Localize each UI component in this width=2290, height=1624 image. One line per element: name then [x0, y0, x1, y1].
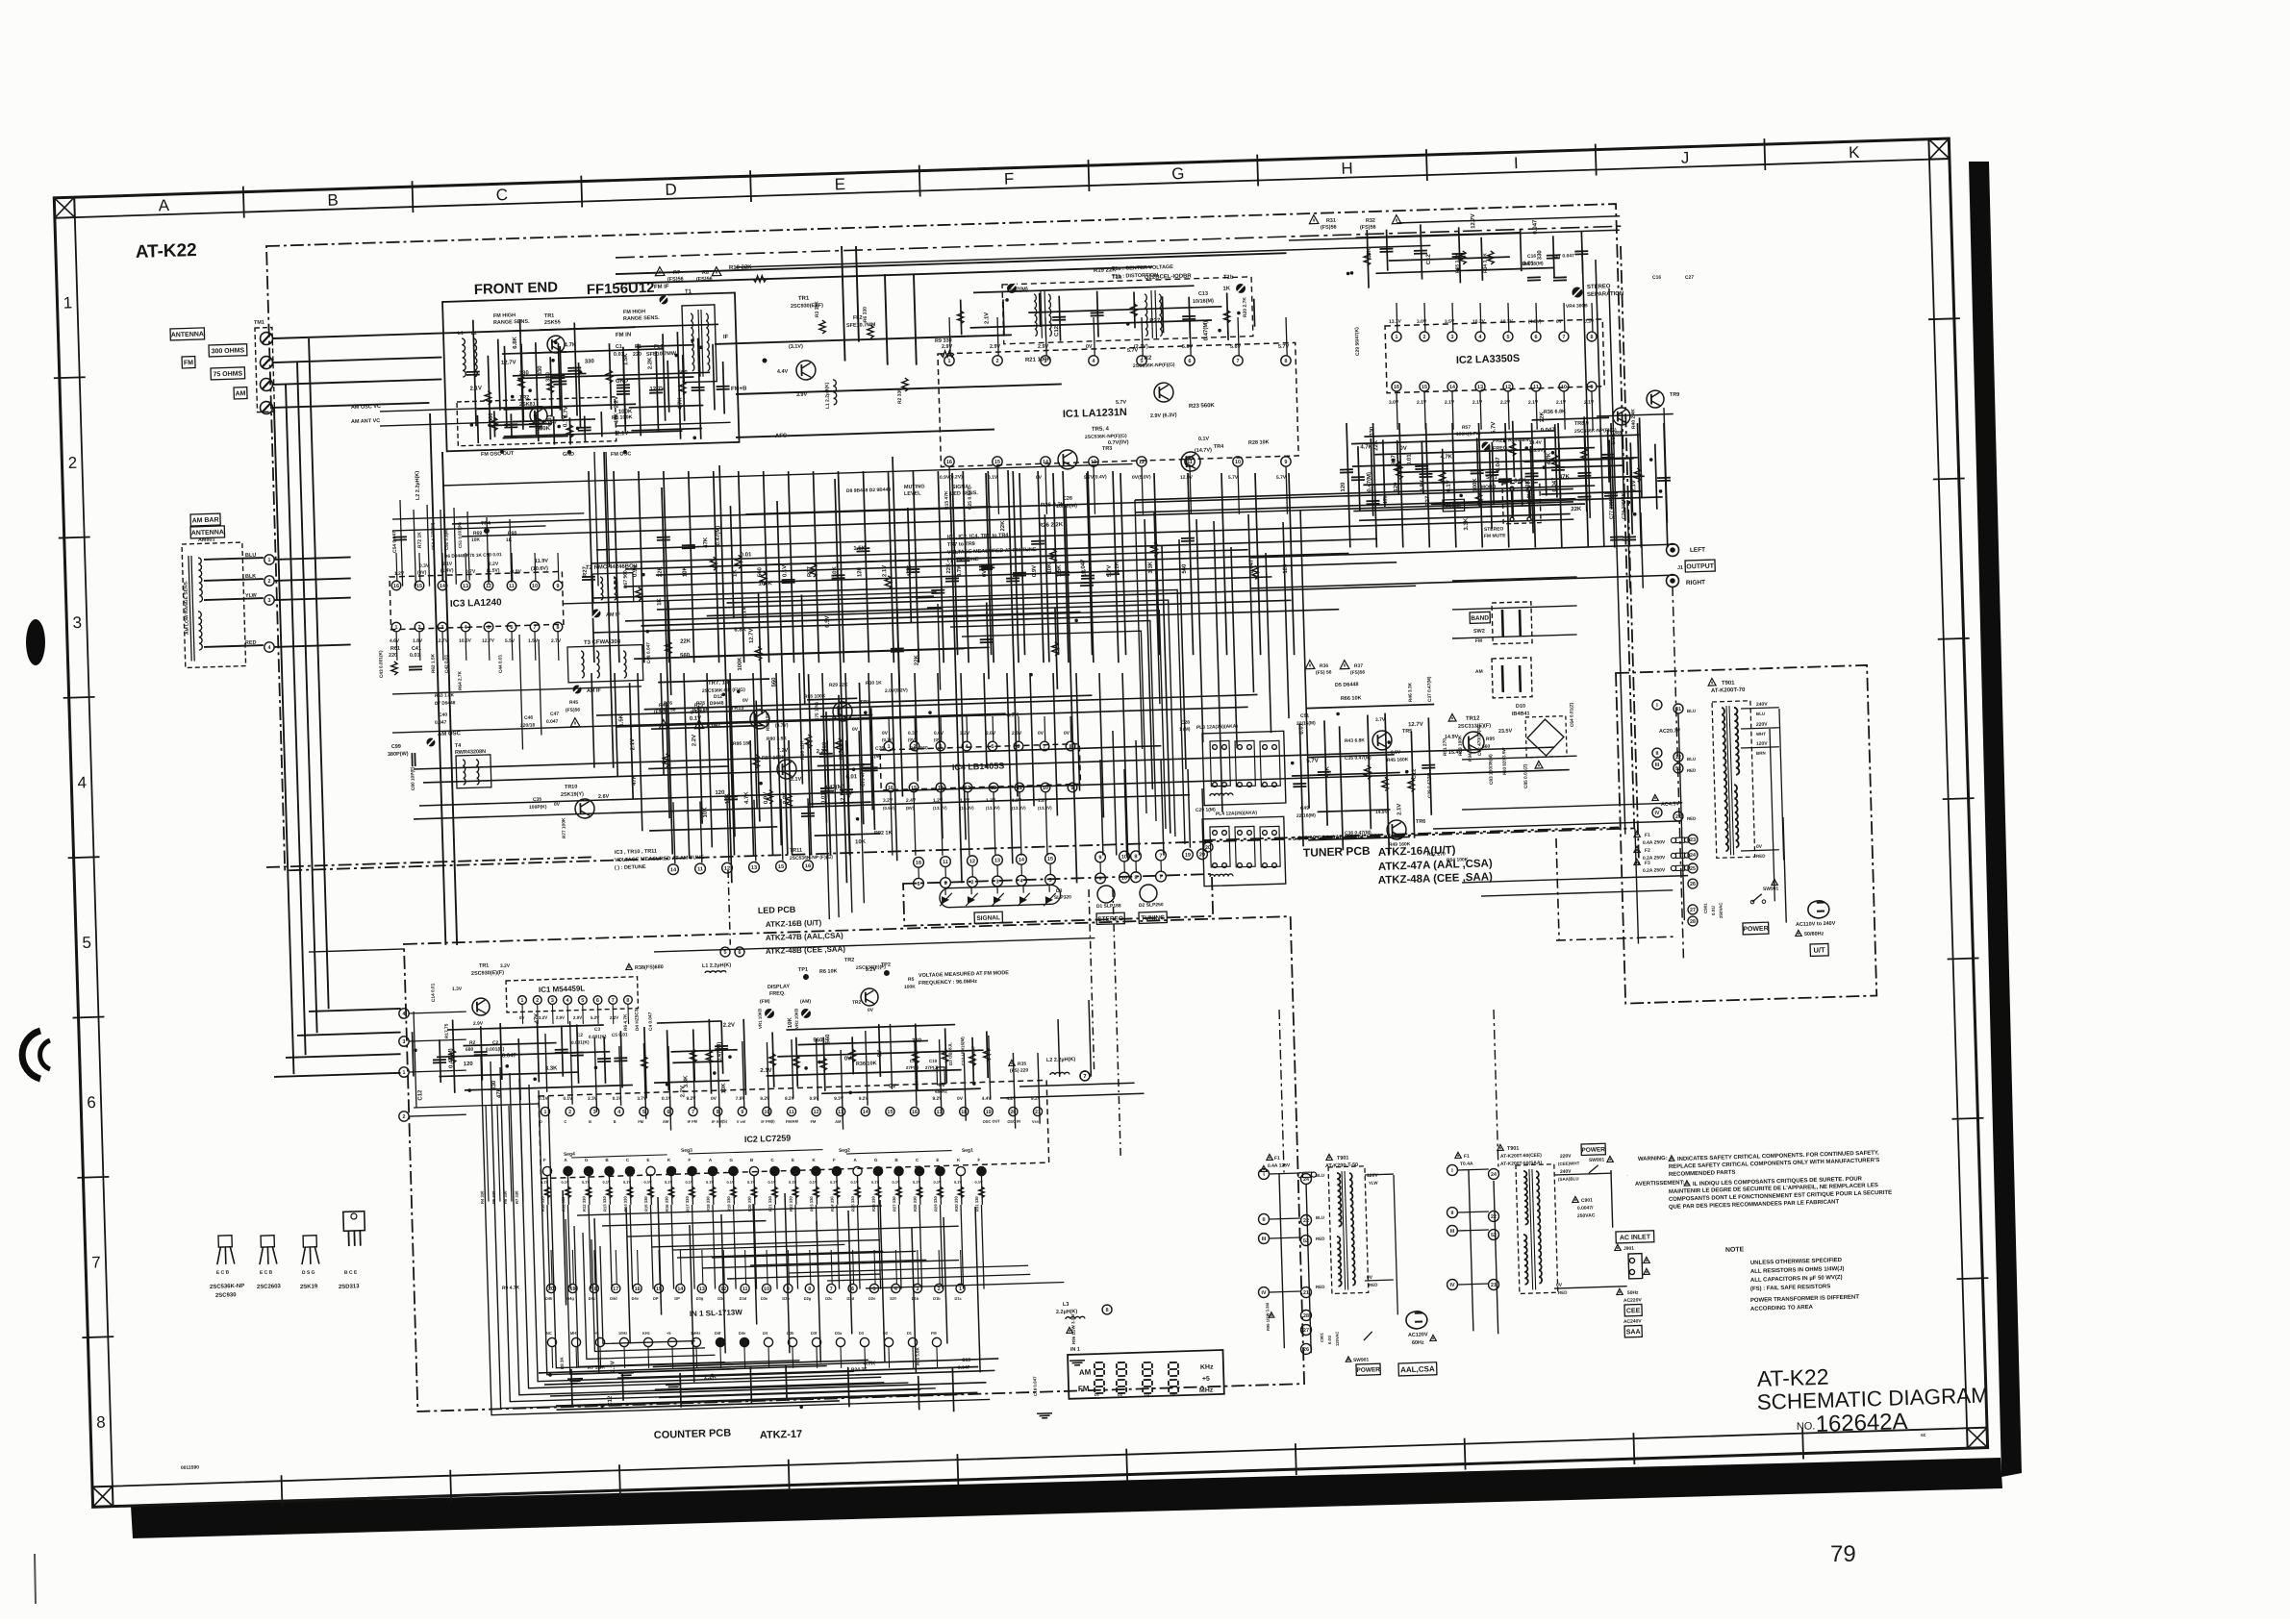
- svg-text:DP: DP: [674, 1296, 680, 1301]
- svg-text:(13.3V): (13.3V): [1038, 806, 1052, 811]
- svg-text:0V: 0V: [889, 1084, 895, 1089]
- svg-text:R19 330: R19 330: [726, 1196, 731, 1212]
- svg-text:R6 4.7K: R6 4.7K: [623, 1013, 630, 1031]
- svg-text:16: 16: [634, 1287, 640, 1292]
- svg-text:13: 13: [751, 865, 757, 871]
- svg-text:F1: F1: [1274, 1156, 1280, 1162]
- svg-text:D2b: D2b: [782, 1296, 790, 1301]
- svg-text:0.01: 0.01: [741, 552, 752, 558]
- svg-text:6: 6: [667, 1110, 669, 1115]
- svg-text:OSC OUT: OSC OUT: [983, 1118, 1001, 1124]
- svg-text:5.7V: 5.7V: [1228, 475, 1239, 481]
- svg-text:10.3V: 10.3V: [1500, 319, 1514, 325]
- svg-text:TP2: TP2: [881, 962, 891, 968]
- svg-text:5.7V: 5.7V: [1306, 759, 1318, 764]
- svg-text:0.1V: 0.1V: [726, 1180, 735, 1185]
- svg-text:R3 15K: R3 15K: [814, 301, 820, 317]
- svg-text:IB4B41: IB4B41: [1512, 711, 1530, 717]
- svg-text:2: 2: [1422, 335, 1425, 340]
- svg-text:R12 330: R12 330: [582, 1195, 587, 1212]
- svg-text:D4b: D4b: [545, 1296, 553, 1301]
- svg-text:R62 1.5K: R62 1.5K: [430, 653, 437, 673]
- svg-text:6.8K: 6.8K: [513, 336, 518, 348]
- svg-text:5.7V: 5.7V: [1491, 422, 1497, 434]
- svg-text:3.2V: 3.2V: [960, 731, 970, 737]
- svg-text:C4 0.047: C4 0.047: [647, 1012, 654, 1031]
- svg-text:R96 1/2W 3.3M: R96 1/2W 3.3M: [1070, 1314, 1076, 1344]
- svg-text:R5: R5: [908, 977, 915, 983]
- svg-text:MHz: MHz: [570, 1331, 578, 1336]
- svg-text:RED: RED: [1687, 816, 1697, 821]
- svg-text:4.7K: 4.7K: [1360, 444, 1372, 450]
- svg-text:IC1 M54459L: IC1 M54459L: [539, 984, 586, 994]
- svg-text:C26: C26: [1063, 496, 1072, 502]
- svg-text:19: 19: [569, 1287, 575, 1292]
- svg-text:ATKZ-16A(U/T): ATKZ-16A(U/T): [1378, 844, 1456, 859]
- svg-text:TR9: TR9: [1670, 392, 1680, 398]
- svg-text:11: 11: [789, 1110, 794, 1115]
- svg-text:2SC536K-NP: 2SC536K-NP: [210, 1284, 244, 1290]
- svg-text:IC1 LA1231N: IC1 LA1231N: [1063, 407, 1127, 420]
- svg-text:0V: 0V: [1556, 319, 1563, 325]
- svg-text:0V: 0V: [877, 1050, 883, 1058]
- svg-text:WARNING:: WARNING:: [1638, 1156, 1668, 1162]
- svg-text:F2: F2: [1645, 848, 1650, 854]
- svg-text:0.047: 0.047: [543, 419, 559, 425]
- svg-text:0V: 0V: [868, 1008, 874, 1013]
- svg-text:8: 8: [96, 1413, 106, 1432]
- svg-text:R36 6.8K: R36 6.8K: [1544, 409, 1566, 415]
- svg-text:560: 560: [771, 677, 777, 687]
- svg-text:RED: RED: [1687, 768, 1697, 773]
- svg-text:10K: 10K: [471, 537, 481, 543]
- svg-text:TP1: TP1: [798, 967, 808, 973]
- svg-text:TR6: TR6: [1416, 819, 1426, 825]
- svg-text:0.4A 250V: 0.4A 250V: [1643, 839, 1666, 846]
- svg-text:0V: 0V: [711, 1096, 717, 1102]
- svg-text:R91 560: R91 560: [910, 745, 928, 752]
- svg-text:0.1V: 0.1V: [789, 1180, 797, 1185]
- svg-text:R17 330: R17 330: [685, 1195, 690, 1212]
- svg-text:16: 16: [916, 861, 921, 866]
- svg-text:3.3K: 3.3K: [1464, 517, 1470, 530]
- svg-text:0.3V: 0.3V: [908, 731, 919, 737]
- svg-text:2: 2: [970, 880, 973, 886]
- svg-text:5: 5: [642, 1110, 645, 1115]
- svg-text:AM IF: AM IF: [587, 688, 602, 694]
- svg-text:C901: C901: [1581, 1198, 1593, 1204]
- svg-text:12.7V: 12.7V: [501, 360, 516, 365]
- svg-text:12.7V: 12.7V: [1471, 213, 1476, 229]
- svg-text:0.3V: 0.3V: [1584, 319, 1595, 325]
- svg-text:3: 3: [1450, 335, 1453, 340]
- svg-text:4.6V: 4.6V: [390, 638, 400, 644]
- svg-text:R45: R45: [569, 700, 579, 706]
- svg-text:10: 10: [1561, 385, 1567, 390]
- svg-text:C29 56/47(K): C29 56/47(K): [1354, 327, 1361, 356]
- svg-text:F: F: [833, 1158, 836, 1162]
- svg-text:TR3: TR3: [1102, 446, 1113, 452]
- svg-text:2SC2603: 2SC2603: [257, 1284, 282, 1290]
- svg-text:E: E: [792, 1158, 794, 1162]
- svg-text:3: 3: [72, 613, 82, 632]
- svg-text:0.01: 0.01: [1298, 722, 1304, 734]
- svg-text:C27: C27: [1685, 275, 1695, 281]
- svg-text:D1b: D1b: [933, 1296, 941, 1301]
- svg-text:3: 3: [440, 625, 443, 631]
- svg-text:2.1V: 2.1V: [984, 312, 990, 324]
- svg-text:(CEE)WHT: (CEE)WHT: [1558, 1161, 1580, 1166]
- svg-text:DISPLAY: DISPLAY: [768, 984, 791, 990]
- svg-text:2.0V(0.2V): 2.0V(0.2V): [885, 687, 908, 694]
- svg-text:300 OHMS: 300 OHMS: [212, 347, 245, 355]
- svg-text:19: 19: [1185, 853, 1191, 859]
- svg-text:C76: C76: [875, 746, 885, 752]
- svg-text:E C B: E C B: [216, 1270, 230, 1276]
- svg-text:POWER: POWER: [1581, 1146, 1605, 1154]
- svg-text:T901: T901: [1507, 1146, 1520, 1152]
- svg-text:1MHz: 1MHz: [691, 1331, 701, 1336]
- svg-text:1 (M): 1 (M): [1179, 727, 1191, 733]
- svg-text:FM OSC: FM OSC: [611, 451, 631, 458]
- svg-text:III: III: [1450, 1229, 1455, 1235]
- svg-text:2.9V: 2.9V: [473, 1021, 484, 1027]
- svg-text:8: 8: [1105, 1308, 1108, 1313]
- svg-text:10K: 10K: [1047, 562, 1053, 574]
- svg-text:D1c: D1c: [954, 1296, 962, 1301]
- svg-text:4.7K: 4.7K: [678, 397, 684, 410]
- svg-text:240V: 240V: [1756, 702, 1768, 708]
- svg-text:COUNTER PCB: COUNTER PCB: [654, 1427, 732, 1441]
- svg-text:RED: RED: [1756, 854, 1766, 859]
- svg-text:8: 8: [556, 625, 559, 631]
- svg-text:R86 18K: R86 18K: [733, 740, 752, 747]
- svg-text:0V: 0V: [742, 698, 749, 704]
- svg-text:R35: R35: [1018, 1062, 1027, 1067]
- svg-text:3.0V: 3.0V: [1389, 400, 1399, 406]
- svg-text:27: 27: [1690, 908, 1696, 913]
- svg-text:0.01: 0.01: [1522, 262, 1534, 267]
- svg-text:0.1V: 0.1V: [913, 1180, 921, 1185]
- svg-text:79: 79: [1830, 1541, 1856, 1567]
- svg-text:R6 10K: R6 10K: [819, 968, 838, 975]
- svg-text:VR4 300B: VR4 300B: [1566, 303, 1589, 310]
- svg-text:POWER: POWER: [1356, 1366, 1380, 1374]
- svg-text:F: F: [977, 1158, 980, 1162]
- svg-text:220V: 220V: [1560, 1154, 1572, 1160]
- svg-text:OUTPUT: OUTPUT: [1686, 563, 1715, 571]
- svg-text:BLU: BLU: [245, 553, 256, 559]
- svg-text:0V: 0V: [852, 727, 859, 733]
- svg-text:10.5V: 10.5V: [459, 638, 472, 644]
- svg-text:0.47(M): 0.47(M): [1008, 287, 1028, 293]
- svg-text:2.1V: 2.1V: [470, 386, 482, 391]
- svg-text:2.1V: 2.1V: [1397, 804, 1402, 815]
- svg-text:330: 330: [519, 370, 530, 376]
- svg-text:3: 3: [402, 1039, 405, 1045]
- svg-text:(15.3V): (15.3V): [960, 806, 974, 811]
- svg-text:AM: AM: [1475, 669, 1483, 675]
- svg-text:AT-K22: AT-K22: [136, 240, 197, 262]
- svg-text:20: 20: [1205, 845, 1211, 851]
- svg-text:AM: AM: [663, 1119, 669, 1124]
- svg-text:100K: 100K: [904, 985, 916, 990]
- svg-text:11: 11: [943, 860, 948, 865]
- svg-text:220: 220: [389, 653, 397, 659]
- svg-text:TR1: TR1: [544, 313, 555, 319]
- svg-text:3: 3: [593, 1110, 596, 1115]
- svg-text:0.0047/: 0.0047/: [1577, 1205, 1594, 1212]
- svg-text:C40: C40: [439, 712, 448, 718]
- svg-text:FREQ.: FREQ.: [769, 990, 786, 997]
- svg-text:SW2: SW2: [1473, 629, 1485, 635]
- svg-text:1.3V: 1.3V: [452, 987, 463, 992]
- svg-text:2.2V: 2.2V: [489, 562, 499, 567]
- svg-text:RED: RED: [1558, 1290, 1568, 1295]
- svg-text:11.9V: 11.9V: [535, 559, 549, 564]
- svg-text:5.5V: 5.5V: [505, 638, 516, 644]
- svg-text:R26 330: R26 330: [871, 1196, 876, 1212]
- svg-text:RED: RED: [1369, 1283, 1378, 1287]
- svg-text:I: I: [1514, 154, 1519, 172]
- svg-text:10: 10: [1235, 460, 1241, 465]
- svg-text:C3: C3: [594, 1027, 601, 1033]
- svg-text:380P(W): 380P(W): [388, 751, 409, 758]
- svg-text:F1: F1: [1645, 833, 1650, 838]
- svg-text:R57: R57: [1462, 425, 1472, 431]
- svg-text:1: 1: [947, 359, 950, 364]
- svg-text:(8V): (8V): [906, 806, 915, 811]
- svg-text:1.5K: 1.5K: [623, 353, 629, 365]
- svg-text:SLP320: SLP320: [1054, 894, 1071, 901]
- svg-text:C: C: [495, 186, 508, 204]
- svg-text:2: 2: [536, 998, 539, 1004]
- svg-text:R72 1K: R72 1K: [416, 532, 423, 548]
- svg-text:7: 7: [830, 1287, 833, 1292]
- svg-text:23: 23: [1690, 837, 1696, 843]
- svg-text:R8 3K: R8 3K: [560, 1356, 565, 1369]
- svg-text:25: 25: [1690, 866, 1696, 872]
- svg-text:B: B: [614, 1119, 617, 1124]
- svg-text:LED SENS.: LED SENS.: [950, 490, 979, 497]
- svg-text:LEFT: LEFT: [1690, 547, 1705, 555]
- svg-text:(FS)56: (FS)56: [1360, 225, 1376, 232]
- svg-text:2.2V: 2.2V: [723, 1022, 735, 1028]
- svg-text:2: 2: [267, 579, 270, 585]
- svg-text:FM HIGH: FM HIGH: [493, 312, 516, 319]
- svg-text:DP: DP: [653, 1296, 659, 1301]
- svg-text:OSC IN: OSC IN: [1007, 1119, 1020, 1124]
- svg-text:RED: RED: [1316, 1285, 1325, 1289]
- svg-text:5: 5: [581, 998, 584, 1004]
- svg-text:26: 26: [1690, 882, 1696, 887]
- svg-text:12.0V: 12.0V: [1180, 475, 1194, 481]
- svg-text:0V: 0V: [844, 1056, 851, 1062]
- svg-text:3: 3: [551, 998, 554, 1004]
- svg-text:RED: RED: [245, 640, 257, 646]
- svg-text:0.6V: 0.6V: [934, 731, 944, 737]
- svg-text:4.7K: 4.7K: [744, 791, 750, 804]
- svg-text:F: F: [688, 1158, 691, 1162]
- svg-text:250VAC: 250VAC: [1577, 1212, 1596, 1219]
- svg-text:2.1V: 2.1V: [1584, 400, 1595, 406]
- svg-text:5.7V: 5.7V: [1278, 344, 1290, 350]
- svg-text:2.1V: 2.1V: [630, 738, 636, 750]
- svg-text:VR1 10KB: VR1 10KB: [757, 1008, 763, 1029]
- svg-text:0V: 0V: [519, 1015, 525, 1020]
- svg-text:22/16(M): 22/16(M): [1296, 812, 1316, 819]
- svg-text:6: 6: [917, 882, 919, 887]
- svg-text:6: 6: [1534, 335, 1537, 340]
- svg-text:VR2 10KB: VR2 10KB: [793, 1008, 799, 1029]
- svg-text:C19 0.047: C19 0.047: [1032, 1376, 1038, 1396]
- svg-text:AC120V: AC120V: [1408, 1332, 1428, 1338]
- svg-text:D3: D3: [1056, 888, 1063, 894]
- svg-text:AC4.5V: AC4.5V: [1661, 801, 1680, 808]
- svg-text:RANGE SENS.: RANGE SENS.: [493, 319, 530, 326]
- svg-text:D2g: D2g: [804, 1296, 812, 1301]
- svg-text:J901: J901: [1623, 1246, 1634, 1252]
- svg-text:120: 120: [1341, 482, 1346, 492]
- svg-text:SAA: SAA: [1626, 1329, 1641, 1336]
- svg-text:2.6V: 2.6V: [598, 794, 610, 800]
- svg-text:2SC930(E)(F): 2SC930(E)(F): [471, 970, 504, 977]
- svg-text:SEPARATION: SEPARATION: [1587, 291, 1623, 298]
- svg-text:D12: D12: [714, 694, 723, 700]
- svg-text:D4g: D4g: [566, 1296, 574, 1301]
- svg-text:AM801: AM801: [198, 537, 215, 543]
- svg-text:2SK55: 2SK55: [544, 319, 561, 326]
- svg-text:22: 22: [1491, 1214, 1497, 1220]
- svg-text:15: 15: [887, 1110, 893, 1115]
- svg-text:0.2A 250V: 0.2A 250V: [1643, 867, 1666, 874]
- svg-text:L1: L1: [458, 331, 464, 337]
- svg-text:R63 1.8K: R63 1.8K: [435, 692, 455, 699]
- svg-text:8: 8: [626, 998, 629, 1004]
- svg-text:C43 0.001(K): C43 0.001(K): [378, 650, 385, 678]
- svg-text:FM: FM: [184, 360, 193, 366]
- svg-text:C13: C13: [1198, 291, 1208, 297]
- svg-text:12: 12: [486, 584, 491, 589]
- svg-text:9: 9: [1098, 876, 1101, 882]
- svg-text:AT-K22: AT-K22: [1756, 1364, 1828, 1391]
- svg-text:AT-K200-T-50: AT-K200-T-50: [1325, 1162, 1358, 1169]
- svg-text:162642A: 162642A: [1815, 1409, 1908, 1437]
- svg-text:0.1V: 0.1V: [561, 1180, 569, 1185]
- svg-text:11: 11: [742, 1287, 748, 1292]
- svg-text:FM: FM: [1475, 638, 1482, 644]
- svg-text:BLU: BLU: [1687, 757, 1696, 762]
- svg-text:2.1V: 2.1V: [1528, 400, 1539, 406]
- svg-text:120: 120: [1283, 563, 1289, 574]
- svg-text:TR10: TR10: [565, 785, 578, 790]
- svg-text:CEE: CEE: [1626, 1308, 1641, 1314]
- svg-text:7: 7: [1083, 1074, 1086, 1080]
- svg-text:T901: T901: [1722, 681, 1735, 687]
- svg-text:AM BAR: AM BAR: [192, 517, 219, 525]
- svg-text:2.8V: 2.8V: [1012, 731, 1022, 737]
- svg-text:ANTENNA: ANTENNA: [171, 331, 204, 338]
- svg-text:BRN: BRN: [1756, 751, 1766, 756]
- svg-text:C29 1(M): C29 1(M): [1195, 807, 1216, 813]
- svg-text:3: 3: [995, 879, 998, 885]
- svg-text:5.7V: 5.7V: [1116, 400, 1127, 406]
- svg-text:2.1V: 2.1V: [791, 777, 802, 783]
- svg-text:1K: 1K: [1222, 286, 1230, 291]
- svg-text:1: 1: [959, 1287, 962, 1292]
- svg-text:D3e: D3e: [761, 1296, 768, 1301]
- svg-text:22K: 22K: [1571, 507, 1582, 512]
- svg-text:SIGNAL: SIGNAL: [976, 914, 1000, 922]
- svg-text:BLU: BLU: [1756, 712, 1765, 716]
- svg-text:22: 22: [1303, 1218, 1309, 1224]
- svg-text:L2 2.2µH(K): L2 2.2µH(K): [1046, 1057, 1076, 1063]
- svg-text:RED: RED: [1316, 1237, 1325, 1241]
- svg-text:AAL,CSA: AAL,CSA: [1400, 1364, 1435, 1374]
- svg-text:R28 330: R28 330: [913, 1196, 918, 1212]
- svg-text:AM: AM: [1079, 1368, 1092, 1377]
- svg-text:IC2 LC7259: IC2 LC7259: [744, 1133, 792, 1144]
- svg-text:C5 0.01: C5 0.01: [612, 1032, 628, 1038]
- svg-text:MUTING: MUTING: [904, 484, 925, 490]
- svg-text:0.47(M): 0.47(M): [448, 1048, 455, 1068]
- svg-text:A: A: [158, 196, 170, 214]
- svg-text:Seg1: Seg1: [962, 1148, 973, 1154]
- svg-text:3.5V: 3.5V: [1445, 319, 1455, 325]
- svg-text:0.1V: 0.1V: [933, 1180, 942, 1185]
- svg-text:T901: T901: [1337, 1156, 1349, 1162]
- svg-text:0.1V: 0.1V: [830, 1180, 839, 1185]
- svg-text:5: 5: [872, 1287, 875, 1292]
- svg-text:C10: C10: [929, 1059, 938, 1063]
- svg-text:NOTE: NOTE: [1725, 1246, 1745, 1254]
- svg-text:16: 16: [393, 584, 399, 589]
- svg-text:R27: R27: [807, 565, 813, 577]
- svg-text:AC220V: AC220V: [1623, 1297, 1643, 1304]
- svg-text:D1b: D1b: [912, 1296, 919, 1301]
- svg-text:11: 11: [1533, 385, 1539, 390]
- svg-text:R21 100K: R21 100K: [1025, 357, 1052, 363]
- svg-text:10K: 10K: [721, 1083, 727, 1094]
- svg-text:sc: sc: [1921, 1433, 1926, 1438]
- svg-text:R27 330: R27 330: [892, 1196, 896, 1212]
- svg-text:22K: 22K: [1000, 520, 1006, 532]
- svg-text:16: 16: [912, 1110, 918, 1115]
- svg-text:10: 10: [532, 584, 538, 589]
- svg-text:R31: R31: [1326, 218, 1336, 224]
- svg-text:2.1V: 2.1V: [1556, 400, 1567, 406]
- svg-text:13: 13: [994, 858, 1000, 863]
- svg-text:0.01/: 0.01/: [1327, 1335, 1332, 1344]
- svg-text:TR12: TR12: [1466, 716, 1480, 722]
- svg-text:5: 5: [1506, 335, 1509, 340]
- svg-text:1K: 1K: [506, 537, 513, 543]
- svg-text:3.2V: 3.2V: [500, 963, 511, 969]
- svg-text:12: 12: [1139, 460, 1145, 465]
- svg-text:12: 12: [1505, 385, 1511, 390]
- svg-text:C64 0.01(Z): C64 0.01(Z): [1569, 702, 1575, 727]
- svg-text:47K: 47K: [1383, 493, 1389, 505]
- svg-text:10: 10: [764, 1287, 769, 1292]
- svg-text:2: 2: [568, 1110, 571, 1115]
- svg-text:(13.3V): (13.3V): [1012, 806, 1026, 811]
- svg-text:1.5K: 1.5K: [1057, 564, 1063, 577]
- svg-text:YLW: YLW: [245, 593, 258, 599]
- svg-text:R92 1K: R92 1K: [874, 830, 893, 837]
- svg-text:R25 330: R25 330: [850, 1195, 855, 1212]
- svg-text:(0V): (0V): [908, 737, 917, 742]
- svg-text:13: 13: [1477, 385, 1483, 390]
